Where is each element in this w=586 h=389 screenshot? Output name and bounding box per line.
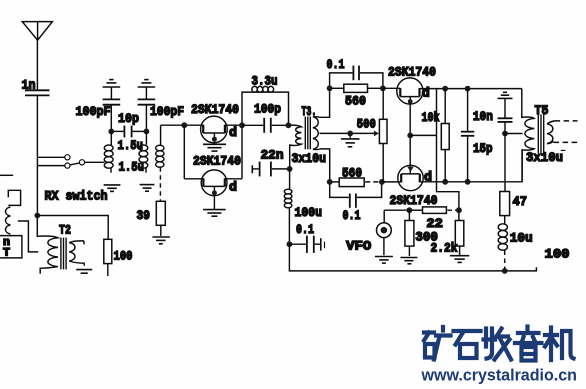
svg-text:560: 560 [345, 94, 366, 109]
wire [145, 105, 147, 132]
node dot tap [347, 131, 353, 137]
ground T2 secondary [76, 270, 92, 274]
transistor Q2 2SK1740 [201, 170, 227, 210]
wire Q3 drain to top rail [420, 88, 522, 90]
node dot B [380, 85, 386, 91]
tick after 3x10u [561, 149, 566, 151]
ground under L2 [140, 185, 155, 192]
wire tap to T5 [505, 133, 523, 135]
inductor fragment left edge [5, 207, 10, 234]
node dot A [327, 85, 333, 91]
wire T5 secondary dashed top [555, 120, 578, 122]
box fragment left upper [8, 190, 20, 205]
ground under Q2 [203, 210, 226, 217]
ground under R10 [450, 256, 469, 263]
node dot gate [181, 122, 187, 128]
wire drain bus [242, 92, 289, 179]
inductor L2 1.5u [139, 131, 148, 172]
resistor R5 560 bottom [330, 178, 381, 187]
wire T3 secondary bottom to node C [320, 149, 330, 182]
node dot rail 15p [465, 86, 471, 92]
wire T3 secondary top to node A [320, 88, 330, 117]
capacitor C3 100pF [138, 99, 156, 104]
resistor R10 2.2k [455, 210, 464, 256]
resistor R1 39 [156, 201, 165, 225]
capacitor C2 100pF [103, 99, 121, 104]
svg-text:100pF: 100pF [76, 104, 111, 119]
node dot rail2 10k [442, 179, 448, 185]
wire dashed L5 to rail [504, 251, 506, 269]
svg-text:d: d [229, 125, 237, 140]
wire node B to Q3 gate [383, 87, 400, 89]
transformer T3 primary [288, 125, 301, 169]
resistor R8 22 [409, 207, 457, 214]
connector VFO [377, 210, 410, 255]
transformer T3 secondary [313, 117, 320, 150]
ground (inverted) above C11 [498, 92, 513, 98]
transformer T2 core [61, 238, 66, 270]
svg-text:2SK1740: 2SK1740 [388, 65, 436, 80]
transistor Q4 2SK1740 [398, 165, 423, 190]
wire gate node [161, 124, 204, 126]
resistor R7 47 [500, 192, 510, 216]
glyph ji [545, 328, 574, 361]
svg-text:10n: 10n [473, 109, 493, 124]
wire R2 stub [107, 264, 109, 276]
node dot [108, 129, 114, 135]
potentiometer R4 500 [374, 88, 387, 182]
wire [160, 225, 162, 236]
svg-text:0.1: 0.1 [296, 222, 314, 237]
svg-text:10u: 10u [510, 231, 533, 246]
svg-text:2SK1740: 2SK1740 [390, 193, 438, 208]
svg-text:10k: 10k [422, 110, 440, 125]
svg-text:1.5u: 1.5u [119, 160, 145, 175]
watermark logo [424, 327, 574, 361]
wire bottom rail [289, 244, 536, 271]
wire node D to Q4 gate [382, 181, 401, 183]
svg-text:1.5u: 1.5u [118, 138, 144, 153]
svg-text:47: 47 [513, 194, 528, 209]
svg-text:3x10u: 3x10u [526, 150, 563, 165]
node dot drain bus [239, 122, 245, 128]
transformer T5 core [538, 114, 543, 153]
svg-text:500: 500 [357, 117, 376, 132]
inductor L coupling (T1 secondary) [156, 125, 164, 167]
ground under R9 [400, 258, 417, 264]
svg-text:d: d [422, 86, 430, 101]
svg-text:d: d [229, 180, 237, 195]
ground under Q1 [203, 144, 226, 151]
svg-text:100u: 100u [295, 205, 323, 220]
svg-text:RX switch: RX switch [45, 189, 108, 204]
transistor Q1 2SK1740 [201, 116, 228, 144]
wire Q4 drain bottom rail [420, 149, 522, 182]
svg-text:1n: 1n [22, 78, 36, 93]
ground (inverted) above C3 [138, 80, 156, 87]
svg-text:3.3u: 3.3u [252, 74, 278, 89]
svg-text:22n: 22n [261, 148, 284, 163]
node dot 22n [287, 166, 293, 172]
inductor L4 100u [284, 169, 292, 244]
ground under L1 [104, 185, 121, 192]
transformer T2 primary [37, 216, 58, 274]
node dot D [379, 179, 385, 185]
svg-text:T: T [3, 248, 10, 260]
wire node to T2 [37, 216, 108, 240]
svg-text:100p: 100p [254, 102, 281, 117]
ground under VFO [375, 257, 393, 264]
svg-text:100: 100 [114, 249, 133, 264]
node dot 10n tap [502, 131, 508, 137]
wire Q1 drain [225, 124, 242, 126]
transformer T2 secondary [69, 241, 84, 266]
svg-text:0.1: 0.1 [327, 57, 345, 72]
antenna [22, 22, 52, 41]
svg-text:2SK1740: 2SK1740 [191, 102, 239, 117]
wire [110, 87, 112, 99]
RX switch [37, 155, 84, 169]
resistor R3 560 top [330, 84, 383, 92]
node dot rail2 15p [465, 179, 471, 185]
transformer T5 secondary [547, 121, 555, 144]
tick T2 secondary top [83, 241, 85, 245]
wire [110, 105, 112, 132]
capacitor C7 0.1 stub [289, 236, 324, 253]
wire main left vertical [36, 95, 38, 215]
svg-text:0.1: 0.1 [343, 208, 361, 223]
wire antenna stem [36, 40, 38, 89]
wire left loop [18, 221, 38, 252]
wire [145, 87, 147, 99]
wire interstage branch [410, 89, 459, 211]
node junction dot left [34, 213, 40, 219]
svg-text:10p: 10p [118, 111, 139, 126]
svg-text:100: 100 [545, 247, 570, 262]
wire Q2 drain [225, 178, 242, 180]
transistor Q3 2SK1740 [397, 78, 423, 165]
glyph kuang [424, 327, 451, 360]
capacitor C4 10p [111, 126, 146, 138]
svg-text:2SK1740: 2SK1740 [193, 154, 241, 169]
resistor R9 300 [405, 210, 414, 256]
node dot interstage [407, 133, 413, 139]
wire left edge stub [0, 174, 13, 176]
resistor R2 100 [104, 239, 112, 263]
node dot rail 10k [442, 86, 448, 92]
svg-text:T2: T2 [59, 223, 71, 238]
svg-text:15p: 15p [473, 141, 493, 156]
glyph shou [484, 329, 512, 360]
capacitor C8 0.1 top [330, 66, 383, 89]
capacitor C5 100p [242, 118, 288, 133]
node dot [144, 129, 150, 135]
svg-text:3x10u: 3x10u [292, 151, 327, 166]
inductor L3 3.3u [252, 86, 274, 92]
svg-text:2.2k: 2.2k [431, 241, 458, 256]
capacitor C6 22n [252, 162, 288, 177]
inductor L5 10u [498, 216, 507, 251]
ground (inverted) above C2 [103, 80, 121, 87]
node dot 100u bottom [287, 241, 293, 247]
svg-text:100pF: 100pF [150, 104, 184, 119]
wire dashed to R39 [159, 167, 161, 201]
box fragment left lower [0, 236, 22, 258]
inductor L1 1.5u [104, 131, 113, 172]
svg-text:39: 39 [137, 208, 151, 223]
resistor R6 10k [441, 89, 449, 182]
wire gate to Q2 [184, 178, 203, 180]
wire gate bus [183, 125, 185, 179]
node dot 22 right [456, 207, 462, 213]
wire T5 secondary dashed bottom [554, 141, 578, 143]
capacitor C10 15p [461, 89, 474, 182]
capacitor C9 0.1 bottom [330, 182, 382, 208]
svg-text:www.crystalradio.cn: www.crystalradio.cn [421, 366, 577, 385]
ground at tap [341, 133, 360, 146]
transformer T5 primary [522, 89, 534, 182]
wire T3 secondary tap [320, 132, 374, 134]
transformer T3 core [305, 117, 310, 150]
node dot bottom rail [502, 268, 508, 274]
node dot 22 left [407, 207, 413, 213]
node dot C [327, 179, 333, 185]
glyph shi [454, 331, 481, 358]
glyph yin [515, 327, 542, 361]
capacitor C11 10n [498, 98, 513, 133]
wire tap down to R47 [504, 134, 506, 192]
capacitor C 1n [25, 90, 50, 95]
node dot 100p out [286, 122, 292, 128]
ground under R1 [152, 237, 169, 244]
svg-text:VFO: VFO [346, 239, 371, 254]
svg-text:560: 560 [342, 166, 362, 181]
wire switch to L1 [85, 161, 105, 163]
